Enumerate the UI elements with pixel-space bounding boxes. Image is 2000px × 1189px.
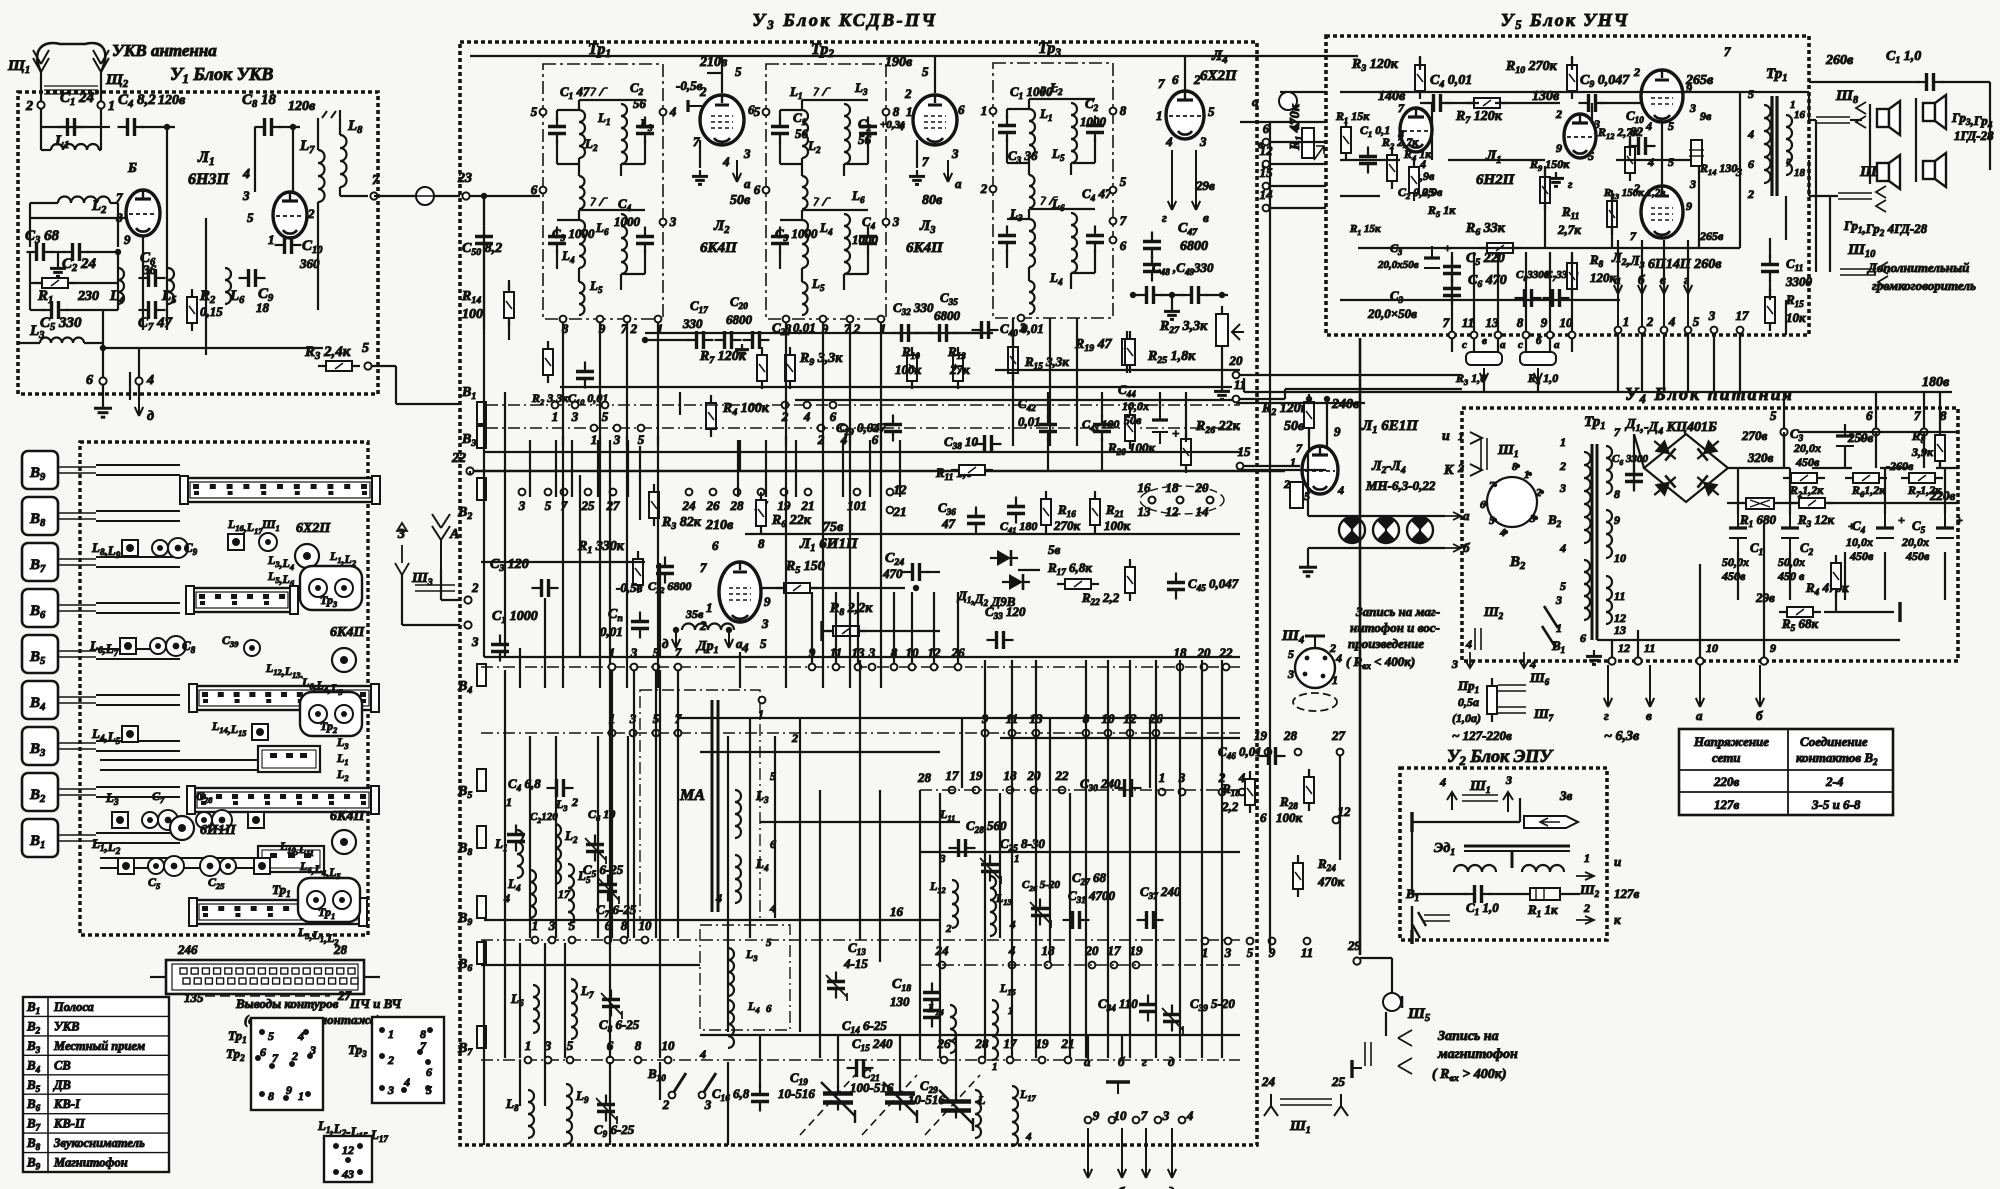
- pin 9: [820, 316, 827, 323]
- wire: [1270, 185, 1326, 187]
- wire cap drop: [1844, 552, 1846, 600]
- svg-text:R21,2к: R21,2к: [1789, 483, 1824, 499]
- wire: [138, 348, 140, 377]
- svg-text:3: 3: [1689, 101, 1696, 115]
- wire: [1869, 104, 1871, 184]
- svg-text:16: 16: [890, 904, 904, 919]
- wire column: [919, 790, 921, 1060]
- contact 3: [549, 937, 556, 944]
- pin box L: [324, 1136, 372, 1182]
- pin box Tr3: [372, 1017, 444, 1103]
- wire column: [899, 440, 901, 497]
- capacitor C1: [771, 117, 789, 144]
- svg-text:26: 26: [937, 1036, 952, 1051]
- capacitor C42: [1039, 415, 1057, 442]
- Tr1 core: [1591, 444, 1594, 640]
- capacitor C4: [1086, 226, 1104, 253]
- wire column: [961, 718, 963, 788]
- svg-text:18: 18: [1166, 480, 1180, 495]
- contact 2: [782, 402, 789, 409]
- wire column: [859, 660, 861, 940]
- wire: [1205, 294, 1228, 296]
- svg-text:R1 1к: R1 1к: [1527, 902, 1558, 919]
- contact 21: [887, 507, 894, 514]
- inductor L7: [318, 150, 325, 202]
- svg-text:Б: Б: [127, 161, 137, 176]
- pin 5: [540, 109, 547, 116]
- pin 3: [1018, 315, 1025, 322]
- wire: [1591, 103, 1593, 124]
- rod wire: [96, 694, 180, 696]
- wire 240v drop: [1326, 399, 1328, 452]
- contact 12: [1263, 161, 1270, 168]
- core mark: [591, 88, 608, 96]
- resistor R4 1k: [1409, 159, 1419, 201]
- tube L1 6I1P: [719, 562, 761, 622]
- inductor L3 osc: [728, 948, 734, 996]
- wire: [1307, 450, 1309, 494]
- wire column wafer: [957, 592, 959, 664]
- svg-text:С3 120: С3 120: [490, 557, 529, 574]
- switch B4 marker: [477, 664, 486, 686]
- resistor R22: [1125, 559, 1135, 601]
- table line: [23, 1035, 169, 1037]
- pin 5: [1493, 518, 1497, 522]
- tube L2 6K4P: [700, 95, 744, 145]
- svg-text:Местный прием: Местный прием: [53, 1039, 146, 1053]
- part: [252, 724, 268, 740]
- core mark: [814, 198, 831, 206]
- contact 9: [1547, 332, 1554, 339]
- svg-text:1: 1: [1014, 853, 1020, 865]
- core mark: [1041, 197, 1058, 205]
- resistor R10: [1567, 57, 1577, 99]
- svg-text:нитофон и вос-: нитофон и вос-: [1350, 620, 1440, 635]
- wire: [1769, 238, 1771, 258]
- capacitor C28: [949, 839, 976, 857]
- wire: [1826, 502, 1958, 504]
- wire: [1737, 468, 1739, 514]
- diode D2: [1692, 435, 1724, 465]
- svg-text:КВ-I: КВ-I: [53, 1097, 81, 1111]
- svg-text:С32 330: С32 330: [893, 300, 934, 317]
- svg-text:R3 120к: R3 120к: [1351, 57, 1399, 74]
- pin 4: [303, 1029, 309, 1035]
- wire: [844, 273, 868, 275]
- rod wire B1: [100, 867, 258, 869]
- wire drop: [1641, 240, 1643, 292]
- wire: [1519, 798, 1521, 822]
- svg-text:12: 12: [1166, 504, 1180, 519]
- svg-text:19: 19: [970, 768, 984, 783]
- plug pins: [1470, 432, 1482, 476]
- wire: [780, 163, 802, 165]
- svg-text:9: 9: [286, 1083, 292, 1097]
- gang dashes: [800, 1075, 980, 1135]
- contact 6: [872, 425, 879, 432]
- wire column: [869, 440, 871, 497]
- wire: [1939, 392, 1941, 428]
- capacitor C3: [998, 226, 1016, 253]
- capacitor C30: [1115, 779, 1142, 797]
- wire drop: [1687, 240, 1689, 292]
- wafer line B4: [481, 666, 1240, 668]
- wire: [1571, 56, 1573, 70]
- junction: [673, 627, 679, 633]
- svg-text:47: 47: [941, 516, 956, 531]
- svg-text:R3 2,4к: R3 2,4к: [304, 344, 351, 362]
- svg-text:50в: 50в: [1284, 419, 1305, 434]
- svg-text:4: 4: [1465, 637, 1472, 651]
- svg-text:С14 6-25: С14 6-25: [842, 1018, 887, 1035]
- wire: [1775, 502, 1798, 504]
- socket: [295, 544, 319, 568]
- wire: [1850, 119, 1862, 121]
- resistor R18: [1245, 771, 1255, 813]
- svg-text:6: 6: [1748, 157, 1754, 171]
- tap ground C2: [57, 252, 59, 262]
- bridge D1-D4: [1644, 434, 1728, 502]
- arrow: [1480, 368, 1488, 382]
- svg-text:а: а: [736, 636, 743, 651]
- arrow г down: [1142, 1128, 1150, 1178]
- svg-text:9: 9: [1556, 141, 1562, 155]
- svg-text:6Н3П: 6Н3П: [188, 171, 229, 188]
- capacitor C48: [1137, 286, 1164, 304]
- capacitor C10 0.01: [576, 362, 594, 389]
- pair: [1480, 438, 1482, 470]
- svg-text:270к: 270к: [1053, 518, 1081, 533]
- svg-text:9: 9: [1541, 315, 1548, 330]
- pin 8: [1516, 464, 1520, 468]
- junction: [1219, 292, 1225, 298]
- rod: [58, 518, 96, 520]
- svg-text:130: 130: [890, 994, 910, 1009]
- wire column: [749, 718, 751, 938]
- wafer line: [920, 789, 1240, 791]
- wire drop: [1497, 252, 1499, 332]
- capacitor C1 1000: [491, 635, 509, 662]
- svg-text:5в: 5в: [1048, 542, 1061, 557]
- svg-text:2: 2: [699, 84, 707, 99]
- pin 4: [1504, 530, 1508, 534]
- wire IF pin drop: [657, 322, 659, 446]
- wire bridge out: [1727, 467, 1790, 469]
- wire: [1713, 334, 1715, 392]
- contact 1: [1202, 938, 1209, 945]
- wire: [1884, 468, 1886, 514]
- contact 1: [609, 730, 616, 737]
- svg-text:4: 4: [1647, 155, 1654, 169]
- bus left: [481, 561, 645, 563]
- svg-text:10: 10: [662, 1038, 676, 1053]
- svg-text:б: б: [1756, 708, 1763, 723]
- switch B9 actuator: [22, 451, 58, 489]
- wire column: [795, 440, 797, 497]
- tube L1 6N2P half B: [1564, 114, 1596, 158]
- wire column: [609, 670, 611, 1058]
- svg-text:6К4П: 6К4П: [906, 240, 944, 256]
- svg-text:13: 13: [1138, 504, 1152, 519]
- svg-text:27к: 27к: [949, 362, 970, 377]
- inductor L2: [555, 824, 561, 884]
- svg-text:1: 1: [1156, 108, 1163, 123]
- inductor L1: [579, 110, 585, 158]
- socket: [332, 830, 356, 854]
- wire: [1448, 159, 1545, 161]
- dial lamp L3: [1373, 517, 1399, 543]
- svg-text:г: г: [1568, 177, 1573, 191]
- block U3 KSDV-PCh border: [460, 42, 1257, 1145]
- svg-text:2: 2: [25, 99, 33, 114]
- core L7L8: [322, 111, 336, 118]
- svg-text:6: 6: [748, 102, 755, 117]
- wire: [1280, 91, 1326, 93]
- switch B7 actuator: [22, 543, 58, 581]
- svg-text:5: 5: [1208, 104, 1215, 119]
- wire: [402, 624, 460, 626]
- svg-text:+: +: [1898, 513, 1905, 527]
- wire: [644, 140, 646, 164]
- svg-text:КВ-П: КВ-П: [53, 1117, 86, 1131]
- capacitor C7 47: [139, 301, 166, 319]
- svg-text:Дополнительный: Дополнительный: [1867, 260, 1969, 275]
- wire drop: [1525, 252, 1527, 332]
- wire column: [1011, 660, 1013, 1058]
- svg-text:3: 3: [951, 146, 959, 161]
- contact 2: [818, 425, 825, 432]
- svg-text:1: 1: [552, 409, 559, 424]
- capacitor C18b: [923, 1001, 941, 1028]
- svg-text:5: 5: [1120, 174, 1127, 189]
- pin 2: [990, 186, 997, 193]
- svg-text:50,0х: 50,0х: [1722, 555, 1749, 569]
- wire: [1809, 81, 1920, 83]
- contact 1: [1615, 327, 1622, 334]
- pin 3: [307, 1053, 313, 1059]
- wire column: [842, 440, 844, 497]
- pin 3: [357, 1169, 363, 1175]
- junction: [726, 627, 732, 633]
- svg-text:1: 1: [992, 1061, 998, 1073]
- wire column: [727, 1062, 729, 1145]
- pair Sh9: [1838, 198, 1872, 200]
- svg-text:50в: 50в: [730, 193, 751, 208]
- wire: [780, 219, 802, 221]
- contact 28: [1295, 749, 1302, 756]
- svg-text:8: 8: [893, 104, 900, 119]
- svg-text:0,5а: 0,5а: [1458, 695, 1479, 709]
- Tr1 primary upper: [1584, 452, 1591, 543]
- svg-text:330: 330: [682, 316, 703, 331]
- contact 12: [931, 664, 938, 671]
- terminal 11: [1233, 396, 1240, 403]
- junction: [1324, 396, 1330, 402]
- wire: [1412, 893, 1468, 895]
- svg-text:С46 0,01: С46 0,01: [1218, 744, 1262, 761]
- wire lamp top: [1308, 515, 1445, 517]
- contact 20: [1089, 962, 1096, 969]
- svg-text:13: 13: [1614, 623, 1626, 637]
- contact 3: [631, 664, 638, 671]
- svg-text:2: 2: [1329, 641, 1336, 655]
- svg-text:10: 10: [1706, 641, 1718, 655]
- diode D3: [1649, 471, 1681, 501]
- wire speaker rail: [1829, 196, 1831, 272]
- svg-text:С38 10: С38 10: [944, 434, 979, 451]
- pin 7 2: [847, 316, 854, 323]
- svg-text:4: 4: [403, 1075, 410, 1089]
- pin 3: [660, 219, 667, 226]
- wire column: [555, 736, 557, 938]
- wire column: [1085, 660, 1087, 1058]
- svg-text:21: 21: [1061, 1036, 1075, 1051]
- socket: [170, 816, 194, 840]
- contact 7: [561, 489, 568, 496]
- variable capacitor C19: [821, 1082, 855, 1123]
- svg-text:5: 5: [567, 1038, 574, 1053]
- wire: [1783, 432, 1785, 468]
- resistor R15: [1765, 289, 1775, 331]
- bus 75v: [745, 533, 1240, 535]
- resistor R14: [1691, 140, 1702, 166]
- core mark: [814, 88, 831, 96]
- svg-text:МА: МА: [679, 787, 705, 804]
- svg-text:2: 2: [1646, 314, 1654, 329]
- resistor R13: [1607, 193, 1617, 235]
- switch B8 actuator: [22, 497, 58, 535]
- contact 5: [653, 664, 660, 671]
- pin 1: [878, 316, 885, 323]
- wire: [1360, 957, 1392, 959]
- contact 8: [621, 937, 628, 944]
- svg-text:в: в: [1482, 335, 1487, 347]
- svg-text:С4 8,2: С4 8,2: [118, 92, 156, 110]
- capacitor C8: [255, 118, 282, 136]
- svg-text:Л1 6Е1П: Л1 6Е1П: [1361, 418, 1419, 436]
- pin 5: [763, 109, 770, 116]
- switch assembly row5: [195, 900, 361, 924]
- pin 6: [763, 187, 770, 194]
- pair Sh5: [1364, 1042, 1366, 1066]
- contact 10: [1569, 332, 1576, 339]
- svg-text:6: 6: [766, 1003, 772, 1015]
- long bus 22: [474, 470, 1285, 473]
- wire: [1880, 467, 1908, 469]
- arrow б up: [1638, 285, 1646, 330]
- parts L6 L7 C8: [120, 636, 186, 656]
- wire: [40, 127, 42, 150]
- trimmer С5: [585, 835, 606, 865]
- contact 11: [1009, 730, 1016, 737]
- wire column: [939, 793, 941, 1058]
- svg-text:5: 5: [735, 64, 742, 79]
- svg-text:а: а: [955, 176, 962, 191]
- contact 13: [855, 664, 862, 671]
- svg-text:~ 6,3в: ~ 6,3в: [1604, 729, 1640, 744]
- wire from UKV 7: [374, 195, 460, 197]
- wire: [644, 250, 646, 274]
- resistor R4: [706, 395, 716, 437]
- rod: [58, 564, 96, 566]
- contact 8: [1083, 730, 1090, 737]
- svg-text:6: 6: [712, 538, 719, 553]
- svg-text:С1 1,0: С1 1,0: [1886, 49, 1921, 66]
- wire column wafer: [811, 592, 813, 664]
- terminal 11: [1634, 657, 1641, 664]
- wire: [1727, 502, 1745, 504]
- svg-text:д: д: [1168, 1054, 1175, 1069]
- wire: [1989, 82, 1991, 170]
- wire: [867, 250, 869, 274]
- inductor L13: [990, 876, 996, 936]
- svg-text:3: 3: [892, 214, 900, 229]
- pin box Tr1 Tr2: [251, 1018, 323, 1110]
- wire: [30, 202, 58, 204]
- resistor R5: [776, 583, 818, 593]
- svg-text:2: 2: [571, 795, 578, 809]
- switch B1 marker: [477, 402, 486, 424]
- svg-text:С4 47: С4 47: [1082, 186, 1112, 203]
- wire: [1812, 467, 1852, 469]
- svg-text:20,0×50в: 20,0×50в: [1367, 306, 1417, 321]
- svg-text:1: 1: [1623, 314, 1630, 329]
- wire: [29, 283, 31, 310]
- wire: [1006, 139, 1008, 163]
- wire: [1071, 272, 1095, 274]
- variable capacitor C29: [939, 1090, 973, 1131]
- switch assembly row4: [193, 788, 373, 812]
- capacitor C1 1.0: [1465, 885, 1492, 903]
- wire: [1240, 121, 1326, 123]
- switch assembly row2: [192, 588, 292, 612]
- svg-text:а: а: [1696, 708, 1703, 723]
- pin 5: [425, 1085, 431, 1091]
- contact 11: [1471, 332, 1478, 339]
- inductor L1: [51, 144, 99, 150]
- wire: [1923, 392, 1925, 428]
- wire column: [819, 790, 821, 1058]
- svg-text:2: 2: [1633, 65, 1640, 79]
- dial lamp L2: [1339, 517, 1365, 543]
- diode D4: [1692, 471, 1724, 501]
- svg-text:4: 4: [669, 104, 677, 119]
- wire: [801, 268, 803, 282]
- bus 260v: [1340, 91, 1809, 93]
- pin 8: [883, 109, 890, 116]
- resistor R1 1k: [1530, 888, 1560, 900]
- svg-text:С9 6-25: С9 6-25: [594, 1122, 635, 1139]
- svg-text:270в: 270в: [1741, 428, 1768, 443]
- wire long column: [504, 392, 506, 657]
- svg-text:7: 7: [1141, 1108, 1148, 1123]
- wire: [1385, 1012, 1387, 1036]
- svg-text:4: 4: [1165, 134, 1173, 149]
- svg-text:17: 17: [946, 768, 960, 783]
- svg-text:7: 7: [1914, 408, 1921, 423]
- svg-text:R26 22к: R26 22к: [1195, 419, 1241, 436]
- svg-text:10к: 10к: [1786, 310, 1806, 325]
- wire: [481, 964, 700, 966]
- wire: [205, 218, 207, 355]
- contact 5: [567, 1057, 574, 1064]
- svg-text:1: 1: [388, 1027, 394, 1041]
- svg-text:Звукосниматель: Звукосниматель: [53, 1136, 145, 1150]
- svg-text:1000: 1000: [614, 214, 641, 229]
- transformer Tr2 can: [300, 692, 362, 736]
- svg-text:ДВ: ДВ: [53, 1078, 71, 1092]
- arrow в up: [1660, 285, 1668, 330]
